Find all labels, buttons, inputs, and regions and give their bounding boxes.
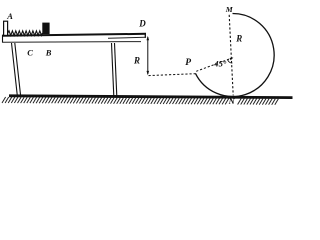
svg-text:D: D xyxy=(138,18,146,28)
svg-text:B: B xyxy=(45,48,52,58)
svg-text:P: P xyxy=(185,58,191,68)
svg-text:N: N xyxy=(228,96,236,106)
svg-text:C: C xyxy=(27,48,33,58)
svg-text:R: R xyxy=(235,33,242,43)
svg-text:45°: 45° xyxy=(213,59,227,69)
svg-text:R: R xyxy=(133,56,140,66)
svg-text:M: M xyxy=(225,5,234,14)
svg-text:A: A xyxy=(6,11,13,21)
